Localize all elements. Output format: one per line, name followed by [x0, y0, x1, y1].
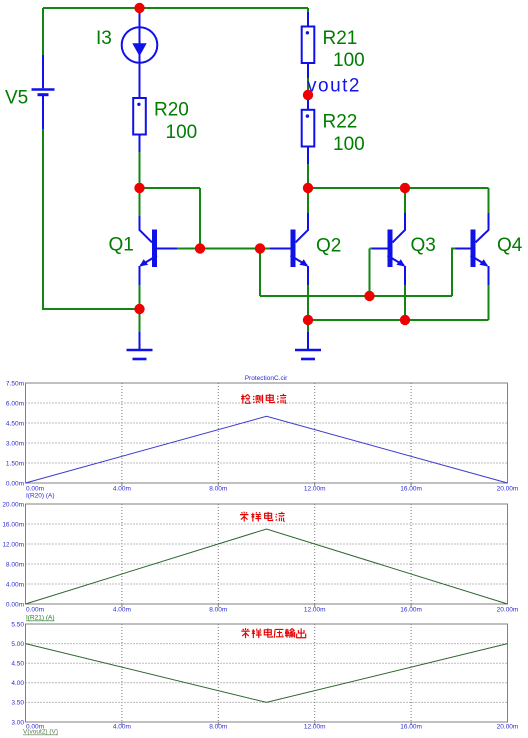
- svg-text:100: 100: [333, 134, 365, 155]
- svg-text:8.00m: 8.00m: [209, 486, 227, 493]
- svg-text:3.00: 3.00: [11, 719, 24, 726]
- junction: top rail / I3: [134, 3, 144, 13]
- svg-text:vout2: vout2: [307, 76, 361, 97]
- wire: ground2 stem: [307, 320, 309, 332]
- svg-text:R20: R20: [154, 100, 189, 121]
- svg-text:8.00m: 8.00m: [6, 561, 24, 568]
- svg-text:Q4: Q4: [497, 235, 523, 256]
- ground (under Q1): [127, 332, 153, 359]
- plot 2 axis ticks: [122, 604, 411, 607]
- junction: R20 bottom / Q1 collector: [134, 183, 144, 193]
- wire: Q4 emitter to ground rail corner: [488, 285, 490, 320]
- svg-text:7.50m: 7.50m: [6, 380, 24, 387]
- svg-text:V5: V5: [5, 88, 28, 109]
- svg-text:4.00m: 4.00m: [113, 724, 131, 731]
- wire: R20 bottom to left rail node: [139, 152, 141, 188]
- junction: ground rail at Q2 emitter: [303, 315, 313, 325]
- junction: vout2 node: [303, 90, 313, 100]
- svg-text:4.00m: 4.00m: [6, 581, 24, 588]
- svg-text:Q2: Q2: [316, 236, 341, 257]
- junction: collector rail at Q3: [400, 183, 410, 193]
- junction: ground rail at Q3 emitter: [400, 315, 410, 325]
- wire: top rail from V5 to R21 branch: [43, 7, 308, 9]
- voltage source V5: [32, 55, 55, 129]
- plot 3 y labels: [11, 621, 24, 726]
- plot 1 title 检测电流: [241, 394, 286, 404]
- plot 1 x labels: [26, 486, 518, 493]
- wire: Q2 base junction down to base bus 2: [259, 249, 261, 297]
- resistor R21: [302, 12, 315, 78]
- plot 3 x labels: [26, 724, 518, 731]
- svg-text:4.00m: 4.00m: [113, 486, 131, 493]
- transistor Q3: [372, 188, 405, 285]
- wire: Q1 emitter to ground node: [139, 285, 141, 309]
- svg-text:4.00: 4.00: [11, 680, 24, 687]
- plot 1 curve I(R20): [26, 416, 508, 483]
- junction: Q1 emitter / V5 return: [134, 304, 144, 314]
- svg-text:8.00m: 8.00m: [209, 724, 227, 731]
- transistor Q4: [456, 213, 489, 285]
- svg-text:3.50: 3.50: [11, 700, 24, 707]
- wire: base bus 2 y=296 feeding Q3/Q4 bases: [260, 249, 456, 297]
- svg-text:I(R20) (A): I(R20) (A): [26, 493, 55, 500]
- svg-text:12.00m: 12.00m: [304, 724, 326, 731]
- svg-text:4.50: 4.50: [11, 661, 24, 668]
- plot 2 title 采样电流: [240, 512, 285, 522]
- plot 1 y labels: [6, 380, 24, 487]
- svg-text:16.00m: 16.00m: [2, 521, 24, 528]
- junction: base bus at diode connection: [195, 243, 205, 253]
- transistor Q2: [270, 188, 308, 285]
- svg-text:I(R21) (A): I(R21) (A): [26, 615, 55, 622]
- plot 3 axis ticks: [122, 722, 411, 725]
- wire: Q3 base drop to base bus 2: [370, 249, 373, 297]
- svg-text:4.50m: 4.50m: [6, 420, 24, 427]
- plot 3 grid: [26, 624, 508, 722]
- svg-text:4.00m: 4.00m: [113, 607, 131, 614]
- plot 2 grid: [26, 504, 508, 604]
- plot 3 title 采样电压输出: [241, 628, 305, 638]
- svg-text:3.00m: 3.00m: [6, 440, 24, 447]
- junction: collector rail at R22: [303, 183, 313, 193]
- plot 2 y labels: [2, 501, 24, 608]
- svg-text:12.00m: 12.00m: [2, 541, 24, 548]
- plot 1 frame: [26, 383, 508, 483]
- resistor R22: [302, 95, 315, 164]
- svg-text:12.00m: 12.00m: [304, 486, 326, 493]
- svg-text:Q1: Q1: [109, 235, 134, 256]
- wire: ground rail y=320: [308, 319, 489, 321]
- svg-text:100: 100: [333, 50, 365, 71]
- wire: ground1 stem: [139, 309, 141, 332]
- wire: R22 bottom to collector rail: [307, 164, 309, 188]
- svg-text:5.00: 5.00: [11, 641, 24, 648]
- svg-text:12.00m: 12.00m: [304, 607, 326, 614]
- svg-text:16.00m: 16.00m: [400, 486, 422, 493]
- wire: V5 top lead drop: [42, 8, 44, 55]
- svg-text:0.00m: 0.00m: [26, 486, 44, 493]
- plot 1 grid: [26, 383, 508, 483]
- svg-text:20.00m: 20.00m: [497, 724, 519, 731]
- svg-text:16.00m: 16.00m: [400, 607, 422, 614]
- plot 2 curve I(R21): [26, 529, 508, 604]
- plot 2 x labels: [26, 607, 518, 614]
- svg-text:1.50m: 1.50m: [6, 460, 24, 467]
- resistor R20: [133, 98, 146, 152]
- current source I3: [122, 8, 158, 98]
- svg-text:ProtectionC.cir: ProtectionC.cir: [245, 375, 288, 382]
- svg-text:0.00m: 0.00m: [6, 601, 24, 608]
- svg-text:Q3: Q3: [411, 235, 436, 256]
- junction: base bus 2 at Q3 base: [364, 291, 374, 301]
- transistor Q1: [139, 188, 177, 285]
- svg-text:R21: R21: [323, 28, 358, 49]
- svg-text:6.00m: 6.00m: [6, 400, 24, 407]
- svg-text:8.00m: 8.00m: [209, 607, 227, 614]
- svg-text:20.00m: 20.00m: [497, 486, 519, 493]
- wire: V5 bottom lead down and across to Q1 emitter node: [43, 129, 140, 309]
- svg-text:20.00m: 20.00m: [497, 607, 519, 614]
- wire: base bus y=248.5 from Q1 base to Q2 base: [177, 248, 270, 250]
- svg-text:16.00m: 16.00m: [400, 724, 422, 731]
- svg-text:5.50: 5.50: [11, 621, 24, 628]
- plot 1 axis ticks: [122, 483, 411, 486]
- svg-text:R22: R22: [323, 112, 358, 133]
- svg-text:I3: I3: [96, 28, 112, 49]
- svg-text:V(vout2) (V): V(vout2) (V): [23, 729, 58, 736]
- wire: R21 branch corner stub: [307, 8, 309, 12]
- plot 2 frame: [26, 504, 508, 604]
- svg-text:0.00m: 0.00m: [6, 480, 24, 487]
- junction: base bus at Q2 base: [255, 243, 265, 253]
- svg-text:100: 100: [166, 122, 198, 143]
- wire: Q2 emitter to ground rail: [307, 285, 309, 320]
- svg-text:0.00m: 0.00m: [26, 607, 44, 614]
- ground (under Q2): [295, 332, 321, 359]
- wire: left rail over to Q1 base (diode connection): [140, 188, 201, 249]
- plot 3 frame: [26, 624, 508, 722]
- wire: node vout2 between R21 and R22: [307, 78, 309, 95]
- wire: collector rail y=188 from Q2 to Q4 corner: [308, 188, 489, 213]
- svg-text:20.00m: 20.00m: [2, 501, 24, 508]
- wire: Q3 emitter down across bus to ground rail: [404, 285, 406, 320]
- plot 3 curve V(vout2): [26, 644, 508, 703]
